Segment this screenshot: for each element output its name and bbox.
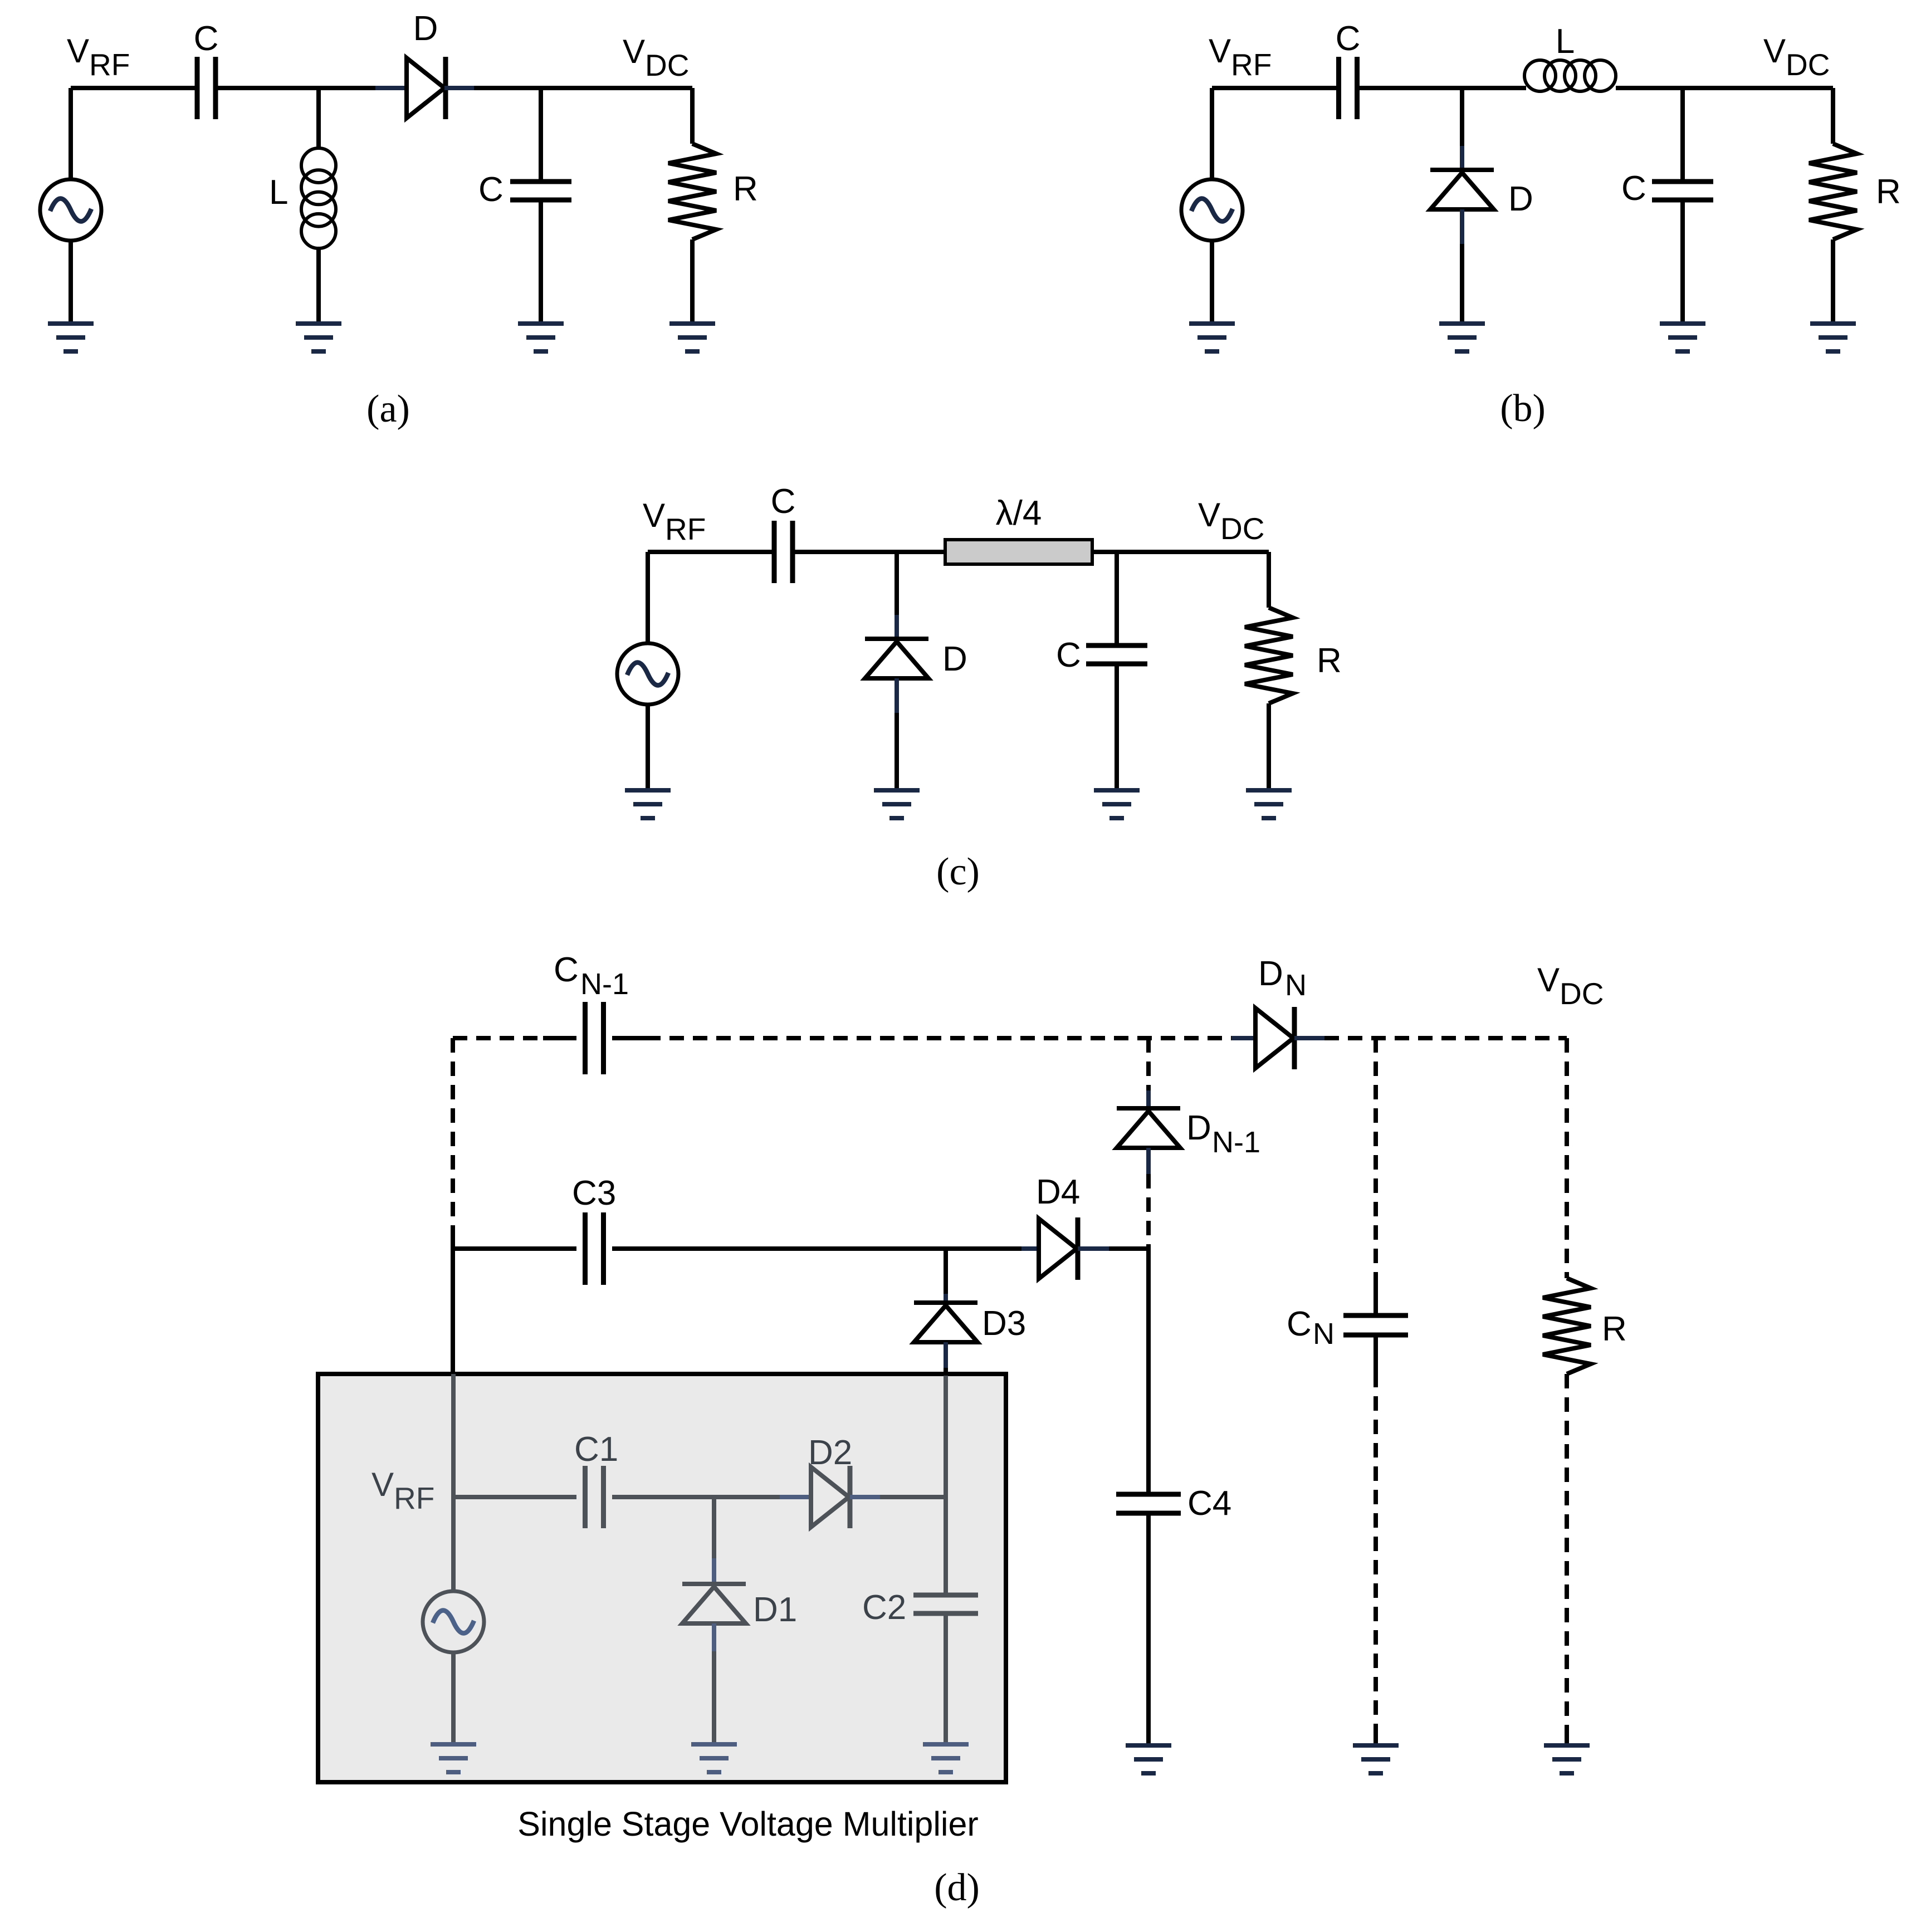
wire (a) shunt C top (539, 88, 543, 179)
wire (d) D4 anode stub (1021, 1246, 1039, 1251)
wire (d) CN dashed upper (1374, 1038, 1378, 1278)
wire (d) CN-1 left stub (543, 1036, 576, 1040)
wire (a) diode anode stub (375, 86, 407, 90)
inductor L (b) (1524, 60, 1616, 91)
capacitor C (b series) (1339, 57, 1357, 119)
svg-text:DC: DC (1560, 976, 1604, 1011)
wire (d) CN-1 right stub (612, 1036, 646, 1040)
wire (d) top rail dashed mid (646, 1036, 1231, 1040)
svg-text:RF: RF (1231, 47, 1272, 82)
wire (c) R top (1267, 552, 1271, 608)
svg-text:(c): (c) (936, 850, 980, 893)
wire (d) CN dashed lower (1374, 1373, 1378, 1728)
wire (a) R top (690, 88, 695, 144)
svg-text:R: R (1602, 1310, 1627, 1348)
wire (d) top rail dashed right (1324, 1036, 1567, 1040)
wire (c) shunt C bottom (1115, 666, 1119, 788)
label D (a) (413, 9, 438, 48)
svg-text:R: R (1317, 642, 1342, 680)
diode D3 (d) (914, 1303, 977, 1342)
wire (d) C4 to ground (1146, 1515, 1151, 1743)
wire (d) DN-1 navy lower (1146, 1148, 1151, 1174)
transmission line lambda/4 (c) (945, 540, 1092, 564)
svg-text:V: V (372, 1466, 394, 1503)
wire (b) rail left (1212, 86, 1336, 90)
svg-text:C2: C2 (862, 1588, 906, 1627)
ground (c) source (625, 788, 671, 820)
svg-text:C: C (1621, 169, 1646, 208)
wire (d) box rail C1 to D2 (612, 1495, 780, 1499)
label C (c series) (771, 482, 796, 521)
label C (c shunt) (1056, 636, 1081, 674)
wire (d) C3 rail to D4 (612, 1246, 1021, 1251)
wire (d) D3 to box (944, 1368, 948, 1376)
resistor R (d) (1543, 1278, 1591, 1374)
wire (d) D1 lower (712, 1651, 716, 1742)
wire (a) R bottom (690, 239, 695, 321)
svg-text:V: V (643, 497, 665, 534)
ground (c) diode (874, 788, 920, 820)
ground (d) C4 (1126, 1743, 1171, 1776)
wire (c) R bottom (1267, 703, 1271, 788)
ground (b) R (1810, 321, 1856, 354)
ac source (a) (40, 179, 101, 241)
capacitor C (b shunt) (1652, 182, 1713, 200)
ground (a) source (48, 321, 94, 354)
svg-text:DC: DC (645, 48, 689, 82)
label D3 (d) (982, 1304, 1026, 1343)
node VRF (c) label (643, 497, 706, 546)
svg-text:D: D (1186, 1109, 1211, 1147)
svg-text:C3: C3 (572, 1174, 616, 1212)
svg-text:N-1: N-1 (1212, 1126, 1260, 1159)
diode D4 (d) (1039, 1217, 1078, 1280)
wire (d) D1 navy lower (712, 1623, 716, 1651)
wire (c) diode lower (895, 713, 899, 788)
svg-text:D2: D2 (808, 1434, 852, 1472)
diode D2 (d) (811, 1466, 850, 1528)
label R (d) (1602, 1310, 1627, 1348)
label C (a shunt) (478, 170, 504, 209)
svg-text:L: L (269, 173, 288, 212)
wire (d) CN stub (1374, 1728, 1378, 1743)
wire (d) D3 navy upper (944, 1294, 948, 1302)
wire (d) CN solid upper (1374, 1278, 1378, 1313)
label L (a) (269, 173, 288, 212)
label CN (d) (1287, 1305, 1335, 1351)
svg-text:D1: D1 (753, 1591, 797, 1629)
label C1 (d) (574, 1430, 618, 1469)
label D2 (d) (808, 1434, 852, 1472)
source VRF (c) wire upper (646, 552, 650, 643)
capacitor C4 (d) (1116, 1494, 1181, 1513)
wire (d) D2 cathode stub (850, 1495, 880, 1499)
svg-text:C: C (1056, 636, 1081, 674)
svg-text:C: C (194, 19, 219, 58)
wire (d) top rail dashed left (453, 1036, 543, 1040)
wire (d) C2 lower (944, 1616, 948, 1742)
svg-text:L: L (1556, 22, 1575, 61)
label lambda/4 (c) (996, 494, 1042, 532)
svg-text:RF: RF (665, 512, 706, 546)
wire (d) DN-1 dashed upper (1146, 1038, 1151, 1090)
svg-text:N: N (1313, 1317, 1335, 1351)
svg-text:D: D (942, 640, 967, 678)
wire (d) box rail D2 to C2 (880, 1495, 946, 1499)
wire (c) shunt C top (1115, 552, 1119, 643)
source (b) wire lower (1210, 241, 1214, 321)
label R (b) (1876, 173, 1901, 211)
source VRF (a) wire upper (69, 88, 73, 179)
svg-text:(b): (b) (1500, 387, 1546, 430)
capacitor C1 (d) (585, 1466, 604, 1528)
ground (b) diode (1439, 321, 1485, 354)
label R (a) (733, 170, 758, 208)
label (a) (366, 388, 410, 431)
label D1 (d) (753, 1591, 797, 1629)
label (c) (936, 850, 980, 893)
capacitor CN (d) (1343, 1315, 1408, 1335)
capacitor C (a shunt) (510, 182, 571, 200)
wire (d) R dashed lower (1565, 1374, 1569, 1728)
diode D1 (d) (682, 1584, 746, 1623)
wire (d) left vertical dashed (451, 1038, 455, 1236)
label C4 (d) (1187, 1484, 1231, 1523)
wire (d) D1 upper (712, 1497, 716, 1558)
diode DN-1 (d) (1117, 1108, 1180, 1148)
svg-text:Single Stage Voltage Multiplie: Single Stage Voltage Multiplier (517, 1805, 978, 1843)
node VRF (a) label (67, 32, 130, 82)
node VDC (c) label (1198, 496, 1264, 546)
svg-text:C: C (771, 482, 796, 521)
svg-text:C1: C1 (574, 1430, 618, 1469)
svg-text:D4: D4 (1036, 1173, 1080, 1211)
label C (b shunt) (1621, 169, 1646, 208)
svg-text:C: C (1336, 19, 1361, 58)
label L (b) (1556, 22, 1575, 61)
label DN (d) (1258, 955, 1307, 1002)
wire (b) R top (1831, 88, 1835, 144)
svg-text:C: C (478, 170, 504, 209)
wire (a) inductor bottom (316, 248, 321, 321)
capacitor C (a series) (197, 57, 216, 119)
wire (d) box C2 vertical from box top (944, 1376, 948, 1497)
wire (d) C3 rail left (453, 1246, 576, 1251)
label D (c) (942, 640, 967, 678)
single stage multiplier box (d) (318, 1374, 1006, 1782)
source (a) wire lower (69, 241, 73, 321)
wire (d) DN anode stub (1231, 1036, 1256, 1040)
wire (c) diode navy upper (895, 615, 899, 639)
svg-text:V: V (1763, 32, 1786, 70)
wire (b) diode navy lower (1460, 209, 1464, 244)
capacitor C2 (d) (913, 1595, 978, 1613)
wire (d) D2 anode stub (780, 1495, 812, 1499)
svg-text:D: D (1508, 180, 1533, 218)
svg-text:C: C (1287, 1305, 1312, 1343)
wire (d) C2 upper (944, 1497, 948, 1593)
diode D (b shunt) (1430, 170, 1494, 209)
ground (c) shunt C (1094, 788, 1140, 820)
wire (b) shunt C top (1680, 88, 1685, 179)
label DN-1 (d) (1186, 1109, 1260, 1159)
wire (c) diode navy lower (895, 678, 899, 713)
wire (c) rail cap to line (793, 550, 945, 554)
svg-text:D3: D3 (982, 1304, 1026, 1343)
wire (d) left vertical solid (451, 1236, 455, 1374)
wire (c) diode upper (895, 552, 899, 615)
label C (a series) (194, 19, 219, 58)
wire (d) D3 navy lower (944, 1342, 948, 1368)
wire (a) rail cap to diode (216, 86, 375, 90)
diode DN (d) (1255, 1007, 1294, 1069)
svg-text:RF: RF (89, 47, 130, 82)
ac source (d) (423, 1591, 484, 1652)
svg-text:λ/4: λ/4 (996, 494, 1042, 532)
svg-text:DC: DC (1786, 47, 1830, 82)
source VRF (d) wire upper (451, 1497, 456, 1591)
caption single stage voltage multiplier (517, 1805, 978, 1843)
wire (d) box rail left (453, 1495, 576, 1499)
ground (a) R (669, 321, 715, 354)
label D (b) (1508, 180, 1533, 218)
svg-text:N: N (1285, 969, 1307, 1002)
svg-text:V: V (1198, 496, 1220, 534)
svg-text:V: V (67, 32, 89, 70)
wire (c) line to C junction (1092, 550, 1269, 554)
wire (b) shunt C bottom (1680, 202, 1685, 321)
wire (a) inductor top (316, 88, 321, 148)
wire (d) DN cathode stub (1294, 1036, 1324, 1040)
svg-text:R: R (733, 170, 758, 208)
wire (d) box left vertical (451, 1374, 456, 1497)
ground (b) source (1189, 321, 1235, 354)
wire (a) top rail left (71, 86, 195, 90)
wire (b) rail cap to L (1357, 86, 1526, 90)
wire (d) DN-1 dashed lower (1146, 1174, 1151, 1249)
wire (b) diode lower (1460, 244, 1464, 321)
svg-text:RF: RF (394, 1481, 434, 1515)
capacitor CN-1 (d) (585, 1002, 604, 1074)
wire (d) R dashed upper (1565, 1038, 1569, 1278)
ground (d) C2 (923, 1742, 969, 1774)
capacitor C (c shunt) (1086, 645, 1147, 664)
wire (b) rail L to VDC (1616, 86, 1833, 90)
ground (b) shunt C (1660, 321, 1705, 354)
svg-text:(d): (d) (934, 1866, 980, 1909)
wire (a) rail diode to VDC (474, 86, 692, 90)
wire (d) D4 to junction (1109, 1246, 1151, 1251)
wire (a) diode cathode stub (444, 86, 474, 90)
node VDC (b) label (1763, 32, 1830, 82)
capacitor C3 (d) (585, 1212, 604, 1285)
wire (b) diode navy upper (1460, 146, 1464, 170)
ground (c) R (1246, 788, 1292, 820)
wire (a) shunt C bottom (539, 202, 543, 321)
svg-text:V: V (1209, 32, 1231, 70)
wire (d) D1 navy upper (712, 1558, 716, 1583)
label C (b series) (1336, 19, 1361, 58)
resistor R (c) (1245, 608, 1293, 703)
source (d) wire lower (451, 1652, 456, 1742)
wire (b) diode upper (1460, 88, 1464, 146)
label C3 (d) (572, 1174, 616, 1212)
svg-text:DC: DC (1220, 511, 1264, 546)
svg-text:D: D (413, 9, 438, 48)
svg-text:V: V (623, 33, 645, 70)
wire (b) R bottom (1831, 239, 1835, 321)
ac source (b) (1181, 179, 1243, 241)
source (c) wire lower (646, 705, 650, 788)
svg-text:N-1: N-1 (580, 967, 629, 1001)
ground (d) source (431, 1742, 476, 1774)
diode D (c shunt) (865, 639, 928, 678)
label C2 (d) (862, 1588, 906, 1627)
svg-text:V: V (1537, 961, 1560, 999)
ground (d) D1 (691, 1742, 737, 1774)
wire (d) junction to C4 (1146, 1249, 1151, 1492)
wire (d) CN solid lower (1374, 1337, 1378, 1373)
inductor L (a) (301, 148, 336, 248)
svg-text:(a): (a) (366, 388, 410, 431)
svg-text:D: D (1258, 955, 1283, 993)
label CN-1 (d) (554, 951, 629, 1001)
node VDC (d) label (1537, 961, 1604, 1011)
label D4 (d) (1036, 1173, 1080, 1211)
svg-text:C: C (554, 951, 579, 989)
wire (d) DN-1 navy upper (1146, 1090, 1151, 1107)
resistor R (a) (668, 144, 716, 239)
ground (a) shunt C (518, 321, 564, 354)
label R (c) (1317, 642, 1342, 680)
wire (d) D3 top (944, 1249, 948, 1294)
ground (a) inductor (296, 321, 341, 354)
svg-text:C4: C4 (1187, 1484, 1231, 1523)
node VDC (a) label (623, 33, 689, 82)
ac source (c) (617, 643, 678, 705)
label (b) (1500, 387, 1546, 430)
node VRF (b) label (1209, 32, 1272, 82)
ground (d) CN (1353, 1743, 1399, 1776)
label (d) (934, 1866, 980, 1909)
capacitor C (c series) (774, 521, 793, 583)
node VRF (d) label (372, 1466, 434, 1515)
svg-text:R: R (1876, 173, 1901, 211)
wire (d) D4 cathode stub (1078, 1246, 1109, 1251)
ground (d) R (1544, 1743, 1590, 1776)
wire (c) rail left (648, 550, 772, 554)
wire (d) R stub (1565, 1728, 1569, 1743)
diode D (a) (407, 57, 446, 119)
source VRF (b) wire upper (1210, 88, 1214, 179)
resistor R (b) (1809, 144, 1857, 239)
